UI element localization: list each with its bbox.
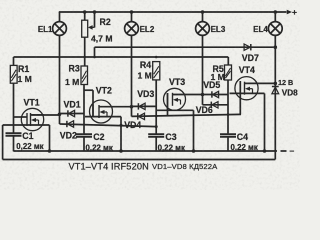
- junction EL4 on +rail: [274, 10, 278, 14]
- svg-text:EL4: EL4: [253, 25, 268, 34]
- wire gate4 column: [227, 80, 229, 134]
- svg-text:R2: R2: [100, 17, 111, 27]
- svg-text:VD2: VD2: [60, 130, 77, 140]
- junction drain2 node: [130, 105, 134, 109]
- wire top +12V rail: [59, 11, 286, 13]
- wire gate3 column: [155, 80, 157, 134]
- svg-text:0,22 мк: 0,22 мк: [16, 142, 43, 151]
- transistor VT4: [235, 77, 258, 100]
- wire EL4 top stub: [274, 12, 276, 22]
- svg-text:VT1–VT4 IRF520N: VT1–VT4 IRF520N: [69, 162, 149, 172]
- svg-text:12 В: 12 В: [278, 78, 293, 87]
- lamp EL3: [196, 22, 210, 36]
- wire EL3 top stub: [202, 12, 204, 22]
- wire C2 to minus rail: [83, 137, 85, 152]
- junction EL3 on +rail: [201, 10, 205, 14]
- diode VD7: [244, 44, 251, 50]
- junction VT2 source/line B: [120, 124, 123, 127]
- svg-text:C4: C4: [237, 132, 248, 142]
- wire VT2 source drop: [120, 117, 122, 151]
- svg-text:+: +: [292, 7, 297, 17]
- junction VT2 source on rail: [119, 149, 123, 153]
- wire VD6 link: [203, 104, 229, 106]
- svg-text:4,7 М: 4,7 М: [91, 33, 113, 43]
- wire VT4 source drop: [264, 93, 266, 151]
- svg-text:VT1: VT1: [24, 97, 40, 107]
- junction VT4 source on rail: [263, 149, 267, 153]
- svg-text:R4: R4: [140, 60, 151, 70]
- resistor R3: [81, 66, 88, 85]
- wire VT2 source line: [85, 116, 121, 118]
- wire R2 bottom lead to R3: [84, 37, 86, 66]
- wire VD5 link: [203, 94, 229, 96]
- svg-text:VT4: VT4: [239, 65, 255, 75]
- svg-text:EL1: EL1: [38, 25, 53, 34]
- svg-text:VD6: VD6: [196, 105, 213, 115]
- junction bias/R4 column: [155, 56, 158, 59]
- capacitor C4: [220, 134, 236, 137]
- junction EL2 on +rail: [130, 10, 134, 14]
- transistor VT2: [90, 100, 113, 123]
- junction R2 wiper on +rail: [93, 10, 97, 14]
- wire lower return line: [3, 159, 276, 161]
- wire EL3 drain column: [202, 35, 204, 105]
- svg-text:VD4: VD4: [124, 120, 141, 130]
- junction 12V drain4 node: [274, 82, 278, 86]
- junction VT1 source on rail: [48, 149, 52, 153]
- wire left column down: [2, 125, 4, 160]
- svg-text:EL2: EL2: [140, 25, 155, 34]
- resistor R5: [225, 65, 232, 80]
- svg-text:1 М: 1 М: [65, 77, 79, 87]
- wire C1 to minus rail: [13, 136, 15, 152]
- wire VT1 source drop: [49, 125, 51, 151]
- svg-text:VD8: VD8: [282, 89, 298, 98]
- wire VT3 source line: [157, 109, 194, 111]
- junction VT3 source on rail: [192, 149, 196, 153]
- wire gate2 jog: [84, 89, 93, 91]
- svg-text:1 М: 1 М: [18, 74, 32, 84]
- wire bias line stub down (R1 side): [13, 57, 15, 65]
- diode VD6: [211, 102, 218, 108]
- wire bias line jog down to R5: [227, 57, 229, 65]
- junction gate4 column on line: [227, 113, 230, 116]
- wire VT3 drain link: [173, 94, 203, 96]
- wire VT1 source line: [3, 124, 50, 126]
- svg-text:C2: C2: [93, 132, 104, 142]
- wire gate1 lead: [14, 116, 28, 118]
- junction bias stub: [93, 56, 96, 59]
- wire VD1 link: [60, 113, 85, 115]
- diode VD1: [68, 110, 75, 116]
- svg-text:VD5: VD5: [203, 80, 220, 90]
- svg-text:EL3: EL3: [211, 25, 226, 34]
- wire minus rail dash to terminal: [281, 150, 287, 152]
- wire C3 to minus rail: [155, 137, 157, 152]
- wire R2 wiper arm + arrowhead: [88, 25, 95, 30]
- wire VD3 link: [132, 105, 157, 107]
- wire gate1 column R1 to C1: [13, 83, 15, 133]
- capacitor C1: [6, 133, 22, 136]
- diode VD4: [138, 113, 145, 119]
- svg-text:VD1: VD1: [64, 99, 81, 109]
- svg-text:C1: C1: [22, 131, 33, 141]
- resistor R4: [153, 62, 160, 80]
- wire VD2 link long: [60, 124, 157, 127]
- wire VT4 drain link: [245, 82, 276, 84]
- wire EL4 drain column: [274, 35, 276, 160]
- svg-text:–: –: [290, 145, 295, 155]
- svg-text:VD1–VD8 КД522А: VD1–VD8 КД522А: [152, 162, 218, 171]
- svg-text:R3: R3: [69, 64, 80, 74]
- wire EL1 drain column: [59, 35, 61, 124]
- diode VD2: [67, 121, 74, 127]
- wire gate2 drop into VT2: [92, 90, 94, 117]
- svg-text:VD3: VD3: [137, 89, 154, 99]
- wire gate-bias line lower (R1..R5): [14, 56, 229, 58]
- svg-text:1 М: 1 М: [138, 70, 152, 80]
- capacitor C3: [148, 134, 164, 137]
- junction line B at C3 column: [155, 125, 158, 128]
- wire EL2 drain column: [131, 35, 133, 117]
- diode VD5: [212, 91, 219, 97]
- wire VT1 drain link: [31, 114, 60, 116]
- junction bias/R2R3 column: [83, 56, 86, 59]
- wire R2 top lead: [84, 12, 86, 20]
- capacitor C2: [76, 134, 92, 137]
- lamp EL2: [125, 22, 139, 36]
- svg-text:VT3: VT3: [169, 77, 185, 87]
- svg-text:VT2: VT2: [96, 85, 112, 95]
- junction drain3 node: [201, 93, 205, 97]
- wire bias lines stub connector: [94, 47, 96, 57]
- junction R2 top on +rail: [83, 10, 87, 14]
- wire VT3 source drop: [193, 110, 195, 151]
- svg-text:C3: C3: [165, 132, 176, 142]
- wire R2 wiper drop: [94, 12, 96, 28]
- wire EL2 top stub: [131, 12, 133, 22]
- wire C4 to minus rail: [227, 137, 229, 152]
- junction drain1 node: [58, 113, 62, 117]
- wire gate2 column: [83, 85, 85, 135]
- svg-text:VD7: VD7: [242, 53, 259, 63]
- arrow + terminal (top right): [285, 10, 291, 13]
- wire gate3 riser from line: [167, 93, 169, 116]
- potentiometer R2 body: [82, 20, 88, 37]
- transistor VT1: [21, 108, 43, 130]
- wire EL1 top stub: [59, 12, 61, 22]
- wire minus rail: [14, 150, 278, 152]
- diode VD3: [138, 103, 145, 109]
- resistor R1: [10, 65, 17, 83]
- lamp EL1: [53, 22, 67, 36]
- wire gate-bias line upper to VD7: [95, 46, 274, 48]
- diode VD8: [272, 87, 279, 94]
- transistor VT3: [164, 88, 186, 110]
- wire VT2 drain link: [99, 106, 132, 108]
- junction VD7 on EL4 column: [274, 45, 278, 49]
- scan grain overlay: [0, 0, 1, 1]
- junction gate3 column on line: [155, 115, 158, 118]
- lamp EL4: [268, 22, 282, 36]
- svg-text:R1: R1: [18, 64, 29, 74]
- wire VD4/gate line long: [132, 114, 242, 116]
- wire VT4 source line: [230, 92, 265, 94]
- wire gate4 riser into VT4: [239, 81, 241, 115]
